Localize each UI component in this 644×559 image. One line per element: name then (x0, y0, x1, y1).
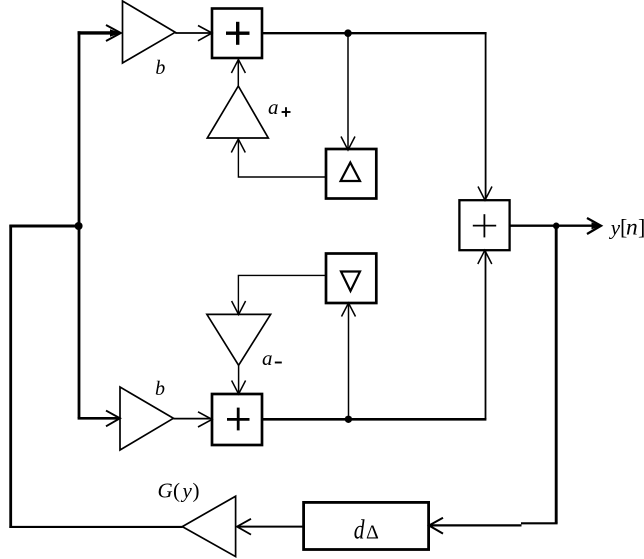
svg-text:d: d (354, 515, 365, 545)
wire b2 to adder S2 (173, 418, 210, 420)
arrowhead into adder S3 bottom (478, 250, 492, 264)
wire far-left vertical (9, 225, 12, 528)
adder S3 box (459, 200, 509, 250)
gain a- triangle (207, 314, 271, 365)
gain G(y) triangle (182, 496, 235, 556)
arrowhead into nabla box bottom (342, 303, 356, 317)
svg-text:a: a (268, 95, 279, 119)
wire right vertical down to adder S3 top (485, 33, 487, 199)
adder S1 box (212, 9, 262, 59)
wire junction down to delta box (347, 34, 349, 149)
wire input top (thick) (78, 31, 119, 34)
wire junction up to nabla box (348, 305, 350, 419)
svg-text:a: a (262, 346, 273, 370)
Delta glyph (341, 163, 360, 182)
svg-text:b: b (155, 378, 165, 400)
d-delta box (304, 502, 429, 549)
nabla glyph (341, 272, 360, 292)
wire corner into gain b2 (78, 417, 119, 420)
arrowhead into d-delta box right (429, 518, 443, 534)
wire d-delta out to G triangle (238, 526, 304, 528)
arrowhead into a- top (232, 301, 246, 315)
arrowhead output y[n] (587, 218, 601, 234)
wire nabla out left and down to a- (238, 275, 326, 315)
svg-text:G: G (158, 478, 173, 502)
wire a+ apex up to adder S1 (237, 60, 239, 87)
plus sign S1 (226, 22, 250, 45)
wire feedback down right (555, 226, 558, 523)
wire b1 to adder S1 (175, 32, 210, 34)
arrowhead into adder S1 bottom (231, 60, 245, 74)
arrowhead into gain b2 (106, 411, 120, 427)
arrowhead into a+ base (231, 139, 245, 153)
svg-text:): ) (193, 478, 200, 502)
delay box nabla (326, 254, 376, 304)
arrowhead into adder S2 top (232, 381, 246, 395)
node dot top junction (344, 29, 352, 37)
adder S2 box (212, 394, 262, 445)
wire adder S3 output (510, 224, 600, 226)
wire node left horizontal (9, 225, 78, 228)
svg-text:]: ] (638, 214, 644, 239)
delay box Delta (326, 149, 376, 199)
arrowhead into adder S3 top (478, 187, 492, 201)
wire adder S1 output to right (262, 32, 487, 34)
svg-text:y: y (181, 478, 193, 502)
svg-text:b: b (155, 57, 165, 79)
svg-text:y: y (609, 215, 621, 239)
wire a- apex down to adder S2 (238, 365, 240, 394)
node dot bottom junction (345, 416, 352, 423)
wire feedback horizontal into d-delta (430, 524, 522, 526)
arrowhead into adder S2 left (198, 412, 212, 427)
svg-text:n: n (626, 214, 638, 240)
svg-text:Δ: Δ (366, 521, 379, 543)
wire adder S2 output to right (262, 418, 486, 421)
wire G triangle out left (9, 526, 182, 528)
plus sign S2 (227, 408, 250, 431)
arrowhead into gain b1 (106, 25, 121, 41)
gain b2 triangle (120, 387, 173, 450)
node dot left junction (75, 222, 83, 230)
node dot output junction (553, 223, 560, 230)
plus sign S3 (473, 214, 496, 237)
arrowhead into delta box top (341, 137, 355, 151)
wire feedback horizontal upper step (521, 522, 558, 524)
wire left vertical x=79 (78, 31, 81, 418)
arrowhead into G triangle base (237, 519, 251, 535)
wire delta box out left and up to a+ (238, 140, 326, 178)
gain a+ triangle (207, 86, 268, 138)
wire right vertical up to adder S3 bottom (485, 251, 487, 419)
svg-text:(: ( (173, 478, 180, 502)
gain b1 triangle (123, 1, 176, 63)
arrowhead into adder S1 left (198, 26, 212, 41)
